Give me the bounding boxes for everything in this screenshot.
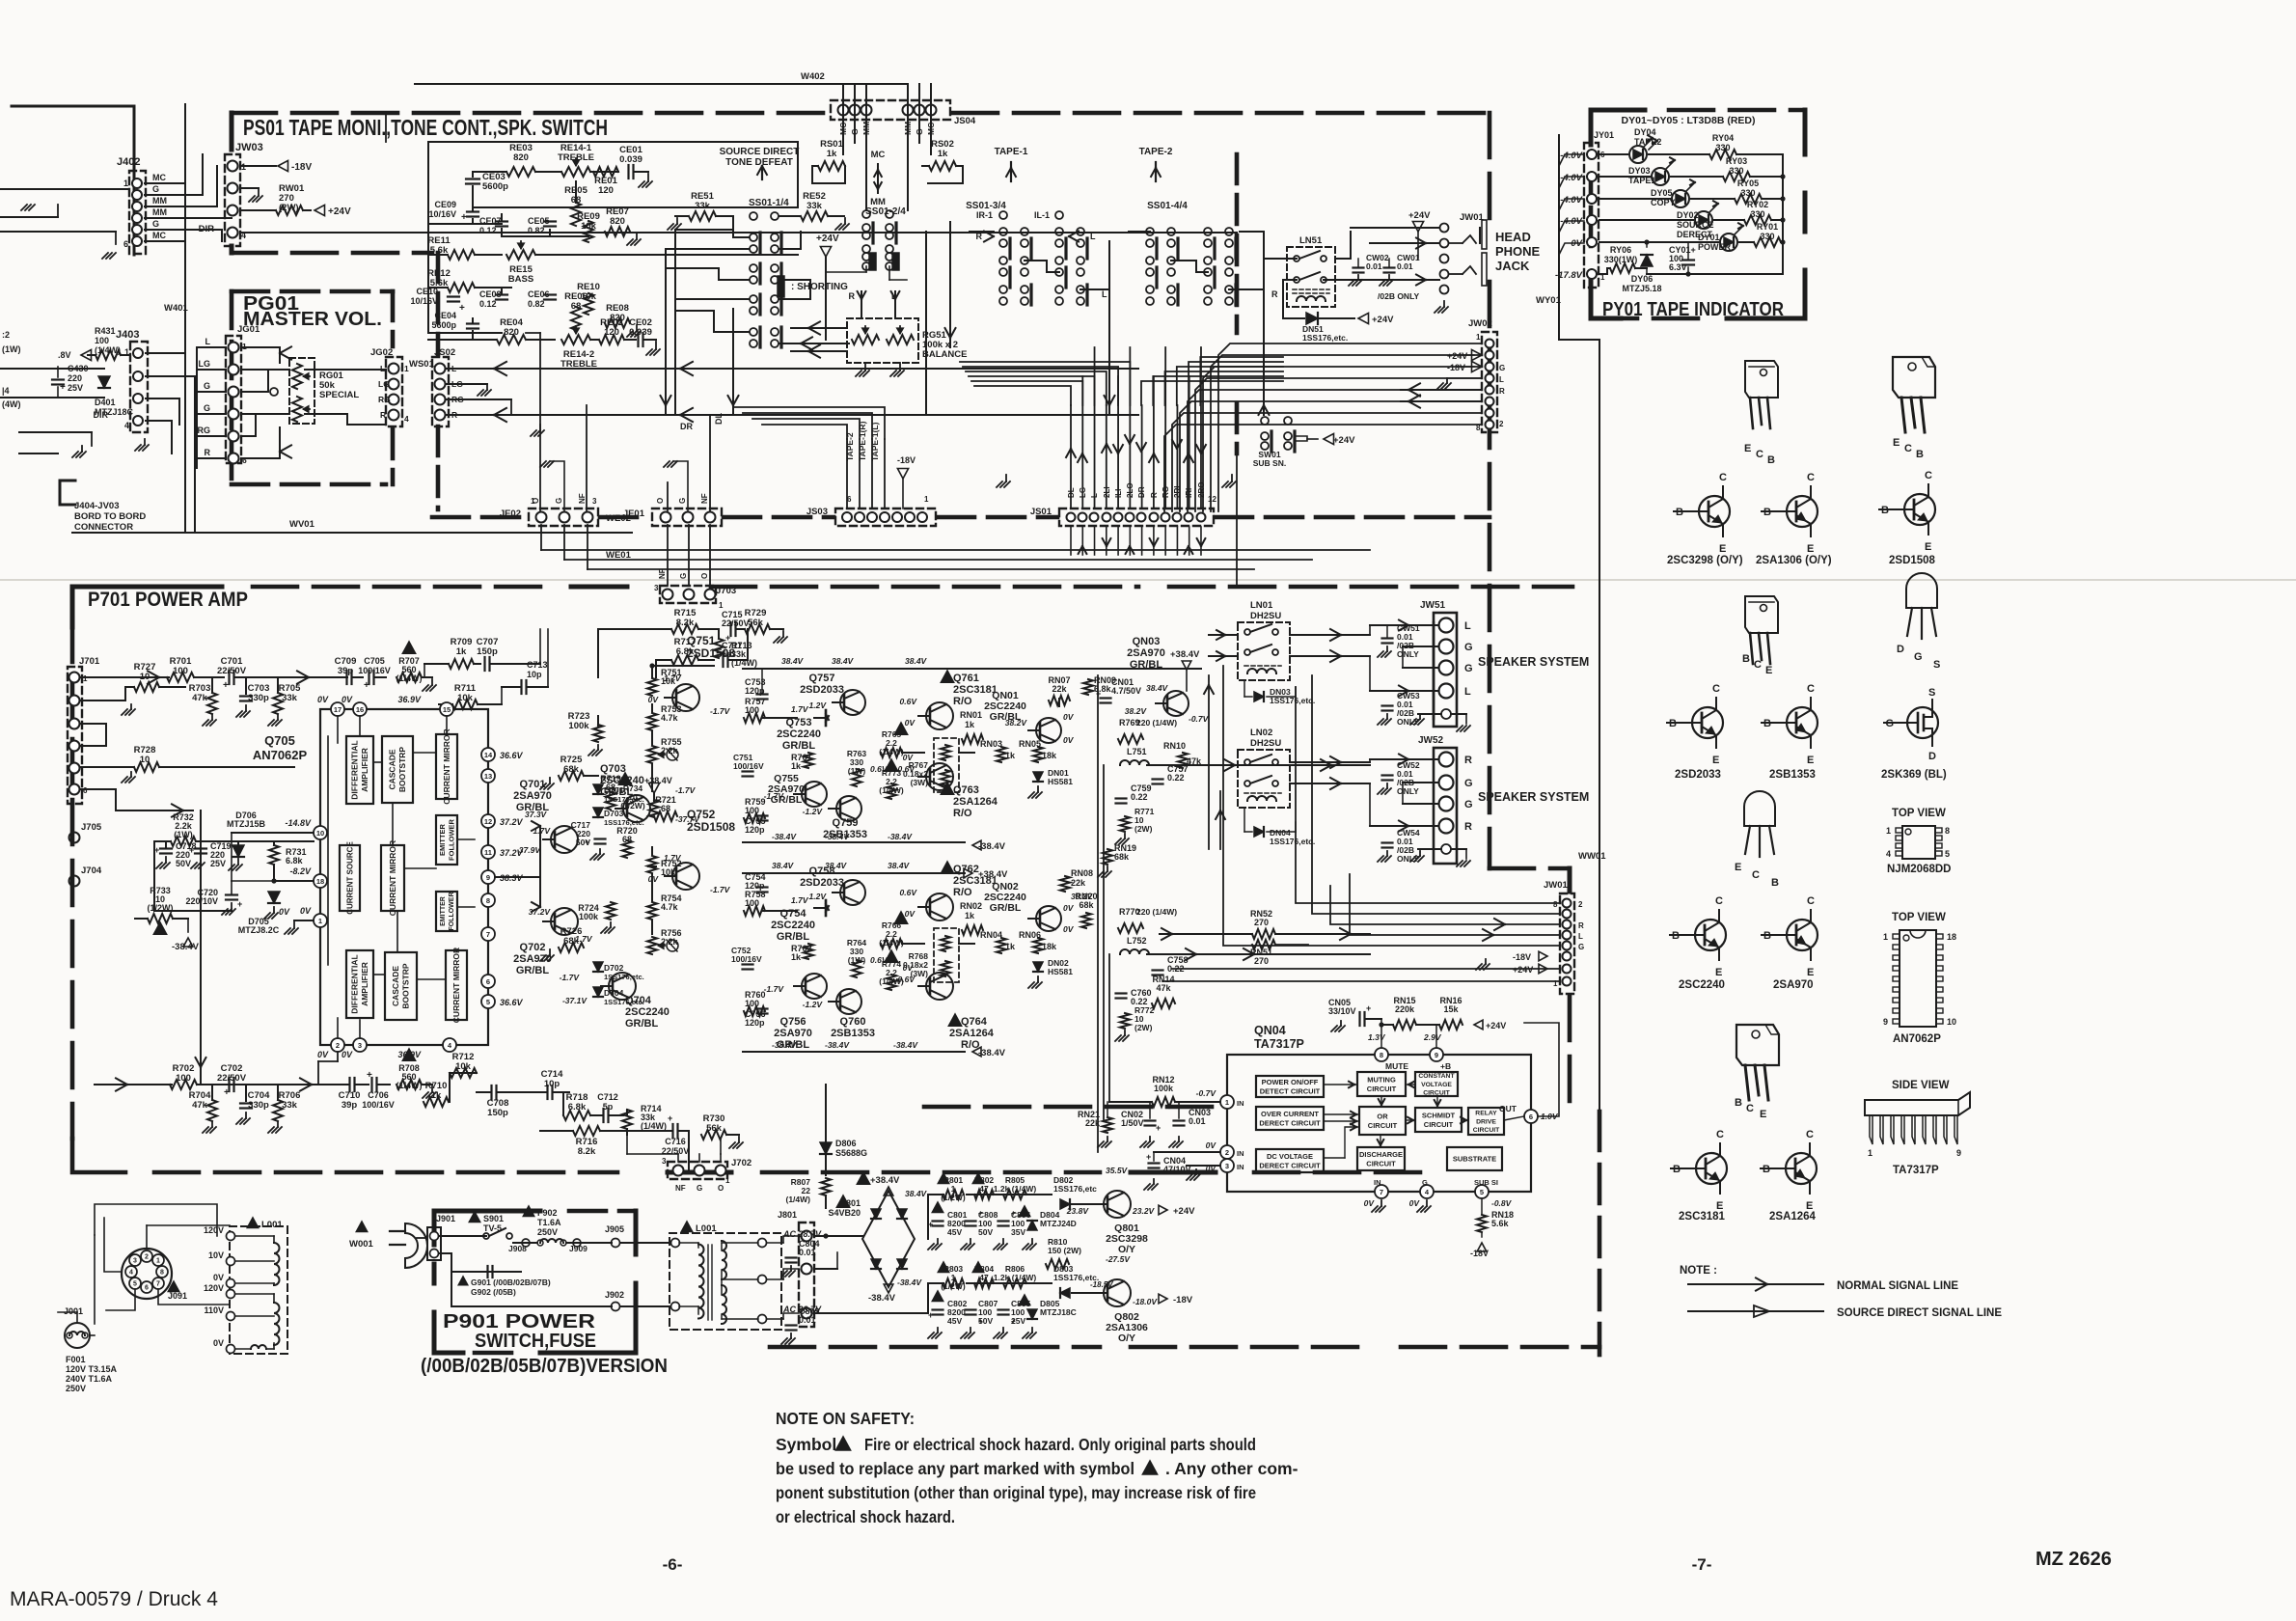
svg-text:1: 1: [1886, 826, 1891, 836]
svg-text:J001: J001: [64, 1306, 83, 1316]
svg-text:ponent substitution (other: ponent substitution (other than original…: [776, 1483, 1256, 1502]
svg-text:P901 POWER: P901 POWER: [443, 1311, 596, 1333]
wire jack: [1370, 279, 1439, 281]
svg-text:BOOTSTRP: BOOTSTRP: [401, 963, 411, 1009]
svg-text:SS01-1/4: SS01-1/4: [749, 198, 789, 208]
ground: [21, 205, 27, 210]
resistor R802: [972, 1173, 983, 1184]
svg-text:9: 9: [1435, 1051, 1438, 1059]
svg-text:12: 12: [484, 817, 492, 826]
block dc voltage: [1256, 1149, 1324, 1172]
svg-text:9: 9: [1956, 1148, 1961, 1158]
svg-text:120p: 120p: [745, 825, 765, 835]
svg-text:ONLY: ONLY: [1397, 786, 1419, 796]
svg-text:RN01: RN01: [960, 710, 982, 720]
ground: [540, 461, 546, 467]
diode D806: [820, 1142, 832, 1154]
IC pin 3: [1220, 1159, 1234, 1172]
pot RG01 lower: [292, 397, 302, 422]
svg-text:GR/BL: GR/BL: [777, 1039, 810, 1051]
svg-text:250V: 250V: [537, 1227, 558, 1237]
svg-text:G: G: [697, 1184, 702, 1193]
svg-text:38.4V: 38.4V: [1146, 683, 1169, 693]
wire JS02 L: [446, 368, 1138, 370]
svg-text:50V: 50V: [978, 1227, 993, 1237]
P701 border bottom: [154, 1170, 617, 1175]
svg-text:0V: 0V: [213, 1273, 224, 1282]
svg-text:CURRENT MIRROR: CURRENT MIRROR: [451, 948, 461, 1023]
svg-text:JW01: JW01: [1544, 880, 1569, 891]
svg-text:BASS: BASS: [508, 274, 533, 285]
svg-text:5: 5: [133, 1281, 137, 1288]
svg-text:0V: 0V: [905, 909, 916, 919]
svg-text:Q763: Q763: [953, 784, 979, 796]
svg-text:JW02: JW02: [1468, 318, 1492, 329]
P701 border top: [72, 587, 222, 627]
svg-text:NF: NF: [675, 1184, 686, 1193]
wire RG01 to JG02: [305, 369, 386, 371]
IC pin 4: [1420, 1185, 1434, 1198]
wire PY01 down: [1558, 134, 1560, 136]
svg-text:2SB1353: 2SB1353: [823, 829, 867, 840]
svg-text:Q762: Q762: [953, 864, 979, 875]
svg-text:100k: 100k: [568, 721, 589, 731]
svg-text:MTZJ8.2C: MTZJ8.2C: [238, 925, 280, 935]
svg-text:33k: 33k: [695, 201, 711, 211]
jack contact 1: [1449, 242, 1462, 244]
svg-text:5600p: 5600p: [482, 181, 508, 192]
svg-text:J402: J402: [117, 156, 140, 168]
wire DIR: [240, 232, 1237, 234]
svg-text:CONSTANT: CONSTANT: [1418, 1073, 1455, 1080]
svg-text:RN04: RN04: [980, 930, 1002, 940]
ground: [864, 363, 866, 371]
svg-text:0.22: 0.22: [1131, 792, 1148, 802]
svg-text:GR/BL: GR/BL: [990, 902, 1022, 914]
svg-text:AMPLIFIER: AMPLIFIER: [360, 962, 369, 1006]
svg-text:8: 8: [1380, 1051, 1383, 1059]
svg-text:(/00B/02B/05B/07B)VERSION: (/00B/02B/05B/07B)VERSION: [421, 1356, 668, 1377]
svg-text:DH2SU: DH2SU: [1250, 738, 1281, 749]
wire pins23: [1154, 1151, 1220, 1153]
svg-text:FOLLOWER: FOLLOWER: [449, 892, 455, 930]
svg-text:E: E: [1760, 1109, 1766, 1120]
svg-text:+: +: [459, 303, 465, 314]
svg-text:T1.6A: T1.6A: [537, 1218, 561, 1227]
svg-text:10k: 10k: [661, 867, 676, 877]
IC pin 2: [1220, 1145, 1234, 1159]
wire pin8 up: [1380, 1025, 1382, 1048]
wire JE feeds: [539, 333, 541, 510]
svg-text:C: C: [1904, 443, 1912, 454]
svg-text:38.4V: 38.4V: [888, 861, 911, 870]
svg-text:0V: 0V: [342, 1050, 353, 1059]
svg-text:-8.2V: -8.2V: [289, 866, 312, 876]
svg-text:E: E: [1765, 665, 1772, 676]
svg-text:4.7k: 4.7k: [661, 902, 679, 912]
svg-text:47k: 47k: [1156, 983, 1171, 993]
svg-text:39p: 39p: [342, 1100, 358, 1111]
svg-text:B: B: [1735, 1097, 1742, 1109]
svg-text:-1.7V: -1.7V: [675, 785, 697, 795]
PS01 border bottom right lobe: [924, 1105, 1216, 1110]
svg-text:DC VOLTAGE: DC VOLTAGE: [1267, 1152, 1313, 1161]
svg-text:AN7062P: AN7062P: [1893, 1033, 1941, 1045]
svg-text:0V: 0V: [1063, 735, 1075, 745]
wire bundle JS03 bends: [762, 425, 847, 439]
rail +38 R: [743, 872, 965, 874]
svg-text:VOLTAGE: VOLTAGE: [1421, 1082, 1452, 1088]
svg-text:-38.4V: -38.4V: [978, 841, 1006, 852]
svg-text:1k: 1k: [827, 149, 837, 159]
svg-text:CURRENT SOURCE: CURRENT SOURCE: [345, 841, 354, 915]
svg-text:2SB1353: 2SB1353: [1769, 769, 1816, 781]
svg-text:2SC3181: 2SC3181: [1679, 1211, 1726, 1223]
svg-text:QN04: QN04: [1254, 1024, 1286, 1037]
svg-text:GR/BL: GR/BL: [782, 740, 816, 752]
svg-text:DERECT CIRCUIT: DERECT CIRCUIT: [1259, 1118, 1321, 1127]
svg-text:SWITCH,FUSE: SWITCH,FUSE: [475, 1331, 596, 1352]
svg-text:JS03: JS03: [806, 507, 828, 517]
svg-text:1.2V: 1.2V: [809, 892, 828, 901]
svg-text:J905: J905: [605, 1224, 624, 1234]
svg-text:TREBLE: TREBLE: [560, 359, 597, 370]
svg-text:38.2V: 38.2V: [1125, 706, 1148, 716]
PS01 border jog: [1490, 866, 1570, 871]
package TO92 2SC2240: [1744, 791, 1775, 826]
svg-text:23.8V: 23.8V: [1066, 1206, 1090, 1216]
svg-text:G: G: [555, 498, 563, 504]
svg-text:S5688G: S5688G: [835, 1148, 867, 1158]
wire WY01: [1558, 135, 1560, 340]
IC pin 8: [1375, 1048, 1388, 1061]
wire sel: [235, 1235, 274, 1237]
svg-text:O: O: [700, 573, 709, 579]
wire trunk js02: [450, 383, 487, 385]
svg-text:36.6V: 36.6V: [500, 998, 524, 1007]
svg-text:CIRCUIT: CIRCUIT: [1424, 1120, 1454, 1129]
svg-text:Q761: Q761: [953, 673, 979, 684]
svg-text:0V: 0V: [648, 874, 660, 884]
IC pin 7: [1375, 1185, 1388, 1198]
wire input L: [81, 676, 169, 678]
svg-text:10: 10: [140, 672, 150, 682]
svg-text:-18.0V: -18.0V: [1133, 1297, 1158, 1306]
svg-text:1: 1: [318, 917, 322, 925]
svg-text:1k: 1k: [456, 646, 467, 657]
svg-text:NF: NF: [658, 568, 667, 579]
svg-text:-0.6V: -0.6V: [895, 975, 916, 984]
zener DY06: [1641, 255, 1653, 266]
svg-text:-0.7V: -0.7V: [1196, 1088, 1217, 1098]
svg-text:18: 18: [1947, 932, 1956, 942]
svg-text:C716: C716: [665, 1137, 686, 1146]
block cascade 1: [382, 736, 413, 803]
wire: [535, 254, 798, 256]
block muting: [1357, 1072, 1406, 1096]
svg-text:25V: 25V: [210, 859, 226, 868]
svg-text:J908: J908: [508, 1244, 527, 1253]
svg-text:B: B: [1767, 454, 1775, 466]
svg-text:1k: 1k: [965, 911, 975, 920]
svg-text:+: +: [928, 1220, 933, 1229]
wire -rail: [888, 1312, 928, 1314]
svg-text:Q752: Q752: [687, 808, 716, 821]
wire out L: [1061, 729, 1119, 731]
svg-text:RY02: RY02: [1747, 200, 1768, 209]
svg-text:IN: IN: [1237, 1149, 1244, 1158]
svg-text:-0.7V: -0.7V: [1189, 714, 1210, 724]
package TA7317P: [1865, 1092, 1970, 1115]
svg-text:1: 1: [1476, 333, 1481, 342]
svg-text:4: 4: [129, 1270, 133, 1277]
svg-text:C: C: [1746, 1103, 1754, 1114]
svg-text:G901 (/00B/02B/07B): G901 (/00B/02B/07B): [471, 1278, 551, 1287]
svg-text:0.22: 0.22: [1167, 773, 1185, 783]
switch LN01 a: [1244, 629, 1250, 635]
transistor Q802: [1104, 1279, 1131, 1306]
switch LN02 b: [1244, 781, 1250, 786]
wire JS02 RG: [446, 398, 511, 400]
rail -38 R: [743, 1051, 965, 1053]
block substrate: [1447, 1147, 1502, 1170]
svg-text:820: 820: [504, 327, 519, 338]
IC pin 1: [1220, 1095, 1234, 1109]
diode DN04: [1254, 827, 1264, 837]
wire q70x: [598, 715, 637, 717]
ground: [102, 253, 108, 259]
svg-text:-18V: -18V: [1447, 363, 1465, 372]
resistor R767 dashed box: [934, 738, 959, 792]
ground: [664, 461, 670, 467]
wires W402 drop: [842, 83, 844, 85]
svg-text:LG: LG: [378, 379, 390, 389]
switch SS01-3/4: [999, 228, 1007, 235]
svg-text:TONE DEFEAT: TONE DEFEAT: [725, 157, 793, 168]
svg-text:JG01: JG01: [237, 324, 260, 335]
wire -38 rail: [915, 1238, 928, 1240]
ground: [144, 439, 146, 445]
svg-text:120: 120: [598, 185, 614, 196]
wire bundle JS03 up: [846, 439, 848, 508]
svg-text:5.6k: 5.6k: [1491, 1219, 1510, 1228]
wire: [1647, 241, 1688, 243]
svg-text:10V: 10V: [208, 1250, 224, 1260]
svg-text:G: G: [204, 381, 210, 391]
svg-text:R/O: R/O: [953, 887, 972, 898]
svg-text:0.01: 0.01: [799, 1248, 816, 1257]
svg-text:S901: S901: [483, 1214, 504, 1223]
svg-text:-1.2V: -1.2V: [803, 1000, 824, 1009]
svg-text:-18V: -18V: [1470, 1249, 1489, 1258]
svg-text:68k: 68k: [1114, 852, 1130, 862]
svg-text:TAPE-2: TAPE-2: [1139, 147, 1173, 157]
svg-text:J404-JV03: J404-JV03: [74, 501, 119, 511]
svg-text:E: E: [1715, 967, 1722, 978]
svg-text:PHONE: PHONE: [1495, 244, 1541, 259]
svg-text:150p: 150p: [487, 1108, 508, 1118]
svg-text:GR/BL: GR/BL: [1130, 659, 1163, 671]
svg-text:JW01: JW01: [1460, 212, 1485, 223]
svg-text:-1.7V: -1.7V: [764, 984, 785, 994]
svg-text:-17.8V: -17.8V: [1555, 270, 1583, 281]
rail -38 L: [743, 841, 965, 843]
svg-text:LN51: LN51: [1299, 235, 1323, 246]
svg-text:IN: IN: [1237, 1099, 1244, 1108]
wire RS loop: [812, 165, 818, 167]
IC inner wires: [373, 761, 382, 763]
svg-text:7: 7: [486, 930, 490, 939]
pot RE14-2: [561, 335, 590, 344]
svg-text:R: R: [1271, 289, 1278, 299]
svg-text:37.9V: 37.9V: [519, 845, 542, 855]
svg-text:100/16V: 100/16V: [731, 954, 762, 964]
wire: [597, 629, 599, 677]
wire JW02 staircase: [1218, 343, 1482, 511]
svg-text:|4: |4: [2, 386, 10, 396]
svg-text:BORD TO BORD: BORD TO BORD: [74, 511, 146, 522]
svg-text:(1/2W): (1/2W): [148, 903, 174, 913]
svg-text:R: R: [849, 291, 856, 301]
svg-text:0V: 0V: [1206, 1140, 1217, 1150]
svg-text:CASCADE: CASCADE: [391, 966, 400, 1006]
P901 border: [434, 1211, 540, 1245]
svg-text:WE02: WE02: [606, 513, 631, 524]
IC pins right: [481, 748, 495, 761]
svg-text:220 (1/4W): 220 (1/4W): [1136, 718, 1177, 728]
svg-text:(2W): (2W): [1134, 1023, 1153, 1032]
svg-text:W402: W402: [801, 71, 825, 82]
svg-text:-1.7V: -1.7V: [764, 791, 785, 801]
zener D705: [268, 892, 280, 903]
svg-text:1k: 1k: [1005, 751, 1016, 760]
svg-text:DRIVE: DRIVE: [1476, 1118, 1496, 1125]
svg-text:4: 4: [404, 414, 409, 424]
switch column SS01-1/4 b: [771, 212, 779, 220]
svg-text:Symbol: Symbol: [776, 1435, 836, 1454]
svg-text:L: L: [380, 364, 385, 373]
svg-text:CURRENT MIRROR: CURRENT MIRROR: [442, 728, 451, 804]
svg-text:1: 1: [83, 674, 88, 683]
svg-text:R431: R431: [95, 326, 116, 336]
wire: [854, 96, 856, 143]
voltage +24V: [1358, 313, 1369, 323]
IC pins left: [314, 826, 327, 839]
svg-text:0V: 0V: [1063, 903, 1075, 913]
svg-text:37.3V: 37.3V: [525, 810, 548, 819]
svg-text:37.2V: 37.2V: [500, 817, 524, 827]
svg-text:+B: +B: [1440, 1061, 1451, 1071]
svg-text:3: 3: [654, 584, 659, 592]
svg-text:6.8k: 6.8k: [286, 856, 304, 865]
svg-text:1k: 1k: [965, 720, 975, 729]
package NJM2068DD: [1902, 826, 1935, 859]
svg-text:C: C: [1807, 472, 1815, 483]
svg-text:120V T3.15A: 120V T3.15A: [66, 1364, 118, 1374]
symbol 2SC3298: [1699, 496, 1730, 527]
capacitor G901: [486, 1266, 488, 1278]
P701 PSU bottom border: [769, 1172, 771, 1347]
svg-text:(2W): (2W): [1134, 824, 1153, 834]
wire: [318, 676, 347, 678]
block relay drive: [1468, 1108, 1504, 1135]
wire tone row1: [473, 171, 506, 173]
wire pin1 ground: [294, 920, 314, 921]
svg-text:+: +: [237, 899, 242, 909]
svg-text:18: 18: [316, 877, 324, 886]
wire bias: [153, 841, 155, 911]
svg-text:1: 1: [1868, 1148, 1872, 1158]
PS01 border left lobe right edge: [1235, 154, 1240, 333]
svg-text:+24V: +24V: [816, 234, 839, 244]
svg-text:C: C: [1754, 659, 1762, 671]
svg-text:G: G: [1422, 1178, 1428, 1187]
svg-text:L752: L752: [1127, 936, 1147, 946]
wire: [1264, 258, 1297, 260]
wire WV01: [72, 532, 632, 534]
svg-text:SOURCE DIRECT SIGNAL LINE: SOURCE DIRECT SIGNAL LINE: [1837, 1307, 2002, 1319]
svg-text:C705: C705: [364, 656, 385, 666]
svg-text:D: D: [1928, 751, 1936, 762]
svg-text:0.039: 0.039: [629, 327, 652, 338]
svg-text:+24V: +24V: [328, 206, 351, 217]
svg-text:1.3V: 1.3V: [1368, 1032, 1386, 1042]
legend source direct line: [1688, 1310, 1823, 1312]
svg-text:10p: 10p: [527, 670, 542, 679]
svg-text:LN02: LN02: [1250, 728, 1272, 738]
svg-text:2SD1508: 2SD1508: [1889, 555, 1936, 566]
svg-text:2: 2: [1499, 420, 1504, 428]
wire bundle JS01 bends: [974, 386, 1071, 405]
wire relay: [1290, 634, 1370, 636]
svg-text:RN10: RN10: [1163, 741, 1186, 751]
switch LN02 a: [1244, 759, 1250, 765]
svg-text:R: R: [1499, 387, 1505, 396]
svg-text:0V: 0V: [903, 753, 915, 762]
svg-text:100k: 100k: [579, 912, 599, 921]
svg-text:+24V: +24V: [1372, 315, 1394, 325]
svg-text:GR/BL: GR/BL: [600, 786, 634, 798]
svg-text:DY01: DY01: [1698, 233, 1720, 242]
ground: [1446, 378, 1448, 383]
svg-text:Q756: Q756: [780, 1016, 806, 1028]
package TO220 2SD2033: [1745, 596, 1778, 633]
svg-text:68: 68: [661, 804, 670, 813]
svg-text:DY05: DY05: [1651, 188, 1673, 198]
svg-text:22/50V: 22/50V: [217, 666, 247, 676]
package TO92 2SK369: [1906, 573, 1937, 608]
PY01 border: [1591, 110, 1645, 145]
ground: [1443, 301, 1445, 307]
svg-text:1k: 1k: [791, 761, 802, 771]
svg-text:FOLLOWER: FOLLOWER: [447, 818, 455, 860]
IC pin 6: [1524, 1110, 1538, 1123]
svg-text:110V: 110V: [204, 1305, 224, 1315]
wire rn15: [1381, 1024, 1393, 1026]
svg-text:5: 5: [1945, 849, 1950, 859]
svg-text:1.7V: 1.7V: [791, 704, 809, 714]
wire sw bundle: [675, 230, 749, 237]
svg-text:120V: 120V: [204, 1283, 224, 1293]
svg-text:+24V: +24V: [1173, 1206, 1195, 1217]
svg-text:2SA970: 2SA970: [513, 790, 552, 802]
svg-text:2SD2033: 2SD2033: [1675, 769, 1721, 781]
plug W001: [356, 1222, 367, 1232]
svg-text:4: 4: [124, 421, 129, 430]
svg-text:1/50V: 1/50V: [1121, 1118, 1144, 1128]
svg-text:2.9V: 2.9V: [1423, 1032, 1442, 1042]
svg-text:DY01~DY05 : LT3D8B (RED): DY01~DY05 : LT3D8B (RED): [1622, 115, 1756, 126]
